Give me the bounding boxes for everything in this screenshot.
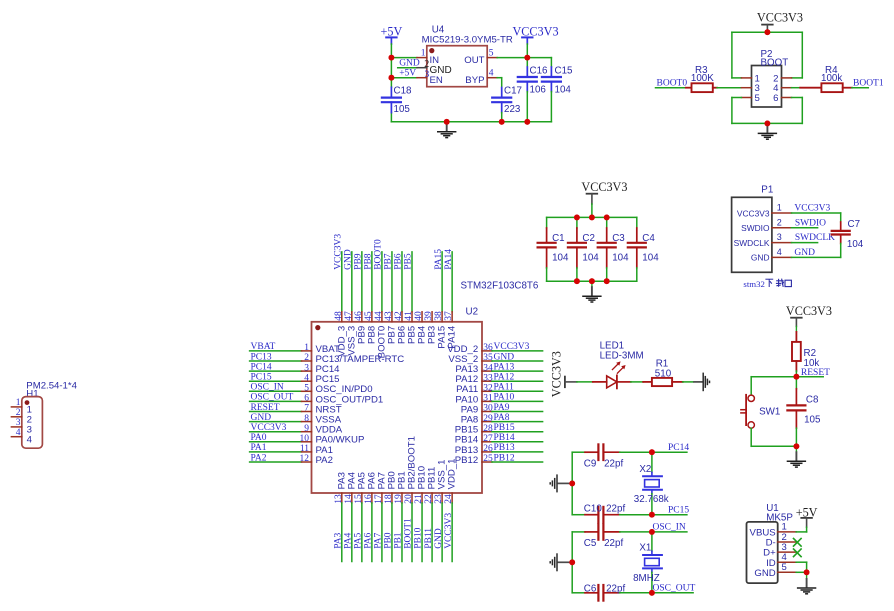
U2 pin 35 lead <box>482 360 543 362</box>
P1 pin 2 SWDIO <box>741 217 791 233</box>
U2 pin number 4 <box>304 373 309 383</box>
U2 pin number 17 <box>374 494 384 504</box>
svg-text:44: 44 <box>374 311 384 321</box>
U2 pin name PA9 <box>461 404 478 415</box>
U2 pin 7 lead <box>250 411 312 413</box>
svg-text:22pf: 22pf <box>604 459 623 470</box>
U4 pin 1 IN <box>417 49 439 66</box>
U2 pin name PA10 <box>455 394 478 405</box>
U2 pin name PC14 <box>316 364 341 375</box>
svg-text:PB9: PB9 <box>354 253 364 270</box>
U2 pin 11 lead <box>250 451 312 453</box>
net label PB11 (U2 pin 22) <box>424 528 434 549</box>
svg-text:BYP: BYP <box>465 75 484 86</box>
svg-text:OSC_IN: OSC_IN <box>251 383 284 393</box>
op U4 regulator body <box>427 46 487 87</box>
svg-text:33: 33 <box>483 373 493 383</box>
svg-text:104: 104 <box>847 239 864 250</box>
capacitor C6 <box>584 584 626 601</box>
net label PA5 (U2 pin 15) <box>354 533 364 549</box>
svg-text:PA7: PA7 <box>374 533 384 549</box>
svg-text:PB1: PB1 <box>394 532 404 549</box>
power symbol +5V (USB) <box>796 506 818 528</box>
junction X2/PC15 <box>649 512 655 518</box>
junction bottom rail/C3 <box>604 278 610 284</box>
wire RESET row <box>751 376 823 378</box>
svg-text:43: 43 <box>384 311 394 321</box>
U2 pin name PC13/TAMPER-RTC <box>316 354 405 365</box>
U2 pin 25 lead <box>482 461 543 463</box>
svg-text:41: 41 <box>404 311 414 321</box>
junction bracket/ground (32k) <box>569 481 575 487</box>
net label BOOT0 (U2 pin 44) <box>374 239 384 270</box>
U4 designator <box>432 24 445 35</box>
U2 pin name PB8 <box>366 326 377 344</box>
U2 pin 2 lead <box>250 360 312 362</box>
svg-text:27: 27 <box>483 434 493 444</box>
U2 pin name NRST <box>316 404 342 415</box>
P2 pin 4 <box>773 83 791 94</box>
P1 pin 1 VCC3V3 <box>737 203 792 219</box>
no-connect D- <box>794 539 802 547</box>
U2 pin number 23 <box>434 494 444 504</box>
H1 designator <box>26 380 77 399</box>
U2 pin name BOOT0 <box>377 326 388 359</box>
svg-text:VCC3V3: VCC3V3 <box>494 342 530 352</box>
junction +5V/pin1 <box>389 55 395 61</box>
U2 pin number 11 <box>300 444 309 454</box>
net label PB1 (U2 pin 19) <box>394 532 404 549</box>
net label PB13 (U2 pin 26) <box>494 443 515 453</box>
U1 pin 4 ID <box>766 552 796 569</box>
ground (LED, rotated) <box>693 373 709 392</box>
U2 pin 38 lead <box>441 252 443 322</box>
svg-text:4: 4 <box>489 69 494 79</box>
net label VBAT (U2 pin 1) <box>251 342 276 352</box>
P2 pin 3 <box>741 83 759 94</box>
svg-text:1: 1 <box>304 343 309 353</box>
U2 pin number 13 <box>334 494 344 504</box>
svg-text:36: 36 <box>483 343 493 353</box>
wire U4 pin1 to +5V rail <box>391 57 417 59</box>
capacitor C4 <box>628 217 659 281</box>
U2 pin name VBAT <box>316 344 340 355</box>
U2 pin name PA5 <box>356 472 367 489</box>
U2 pin number 28 <box>483 424 493 434</box>
svg-text:48: 48 <box>334 311 344 321</box>
junction top rail/C2 <box>574 215 580 221</box>
svg-text:OSC_OUT: OSC_OUT <box>653 583 696 593</box>
wire R1 to ground <box>683 381 694 383</box>
junction bottom bracket/ground <box>765 121 771 127</box>
svg-text:C9: C9 <box>584 459 597 470</box>
svg-text:X2: X2 <box>639 464 651 475</box>
U2 pin name PA3 <box>336 472 347 489</box>
net label PA7 (U2 pin 17) <box>374 533 384 549</box>
svg-text:C7: C7 <box>848 219 861 230</box>
net label PA2 (U2 pin 12) <box>251 453 267 463</box>
U2 pin name PB12 <box>455 455 478 466</box>
U2 pin number 46 <box>354 311 364 321</box>
U2 pin number 7 <box>304 404 309 414</box>
svg-text:PC13: PC13 <box>251 352 272 362</box>
U2 pin name PA4 <box>346 471 357 489</box>
P1 pin 4 GND <box>751 247 792 263</box>
svg-text:stm32: stm32 <box>743 279 765 289</box>
U2 pin number 43 <box>384 311 394 321</box>
U2 pin name PB3 <box>427 326 438 344</box>
U2 pin name PB13 <box>455 445 478 456</box>
U2 pin number 27 <box>483 434 493 444</box>
net label PA10 (U2 pin 31) <box>494 393 515 403</box>
U2 pin name PA14 <box>447 325 458 348</box>
U2 pin 12 lead <box>250 461 312 463</box>
U2 pin number 32 <box>483 384 493 394</box>
svg-text:PA15: PA15 <box>434 249 444 270</box>
svg-text:PC14: PC14 <box>251 362 272 372</box>
svg-text:22pf: 22pf <box>606 504 625 515</box>
connector P2 body <box>752 66 782 108</box>
U2 pin number 12 <box>300 454 310 464</box>
U2 pin 19 lead <box>401 493 403 562</box>
svg-text:4: 4 <box>777 247 782 257</box>
svg-text:PC14: PC14 <box>668 443 689 453</box>
ground (BOOT header) <box>758 123 777 139</box>
junction top rail/VCC stem <box>589 215 595 221</box>
ground (32k, rotated) <box>550 474 569 492</box>
U2 pin 33 lead <box>482 380 543 382</box>
svg-text:VCC3V3: VCC3V3 <box>581 180 627 194</box>
svg-text:VCC3V3: VCC3V3 <box>251 423 287 433</box>
svg-text:GND: GND <box>434 528 444 549</box>
svg-text:PA4: PA4 <box>344 533 354 549</box>
net label PA6 (U2 pin 16) <box>364 533 374 549</box>
svg-text:18: 18 <box>384 494 394 504</box>
svg-text:13: 13 <box>334 494 344 504</box>
svg-text:X1: X1 <box>639 543 651 554</box>
U1 pin 2 D- <box>766 532 797 549</box>
svg-text:104: 104 <box>555 84 572 95</box>
P2 designator <box>761 49 789 68</box>
U2 pin name VDD_3 <box>336 326 347 357</box>
net label PB15 (U2 pin 28) <box>494 423 515 433</box>
U2 pin 23 lead <box>441 493 443 562</box>
U2 pin number 6 <box>304 394 309 404</box>
H1 pin 1 <box>11 398 32 416</box>
net label RESET (U2 pin 7) <box>251 403 280 413</box>
power symbol VCC3V3 (reset) <box>786 304 832 332</box>
U1 pin 1 VBUS <box>750 522 797 539</box>
svg-text:22pf: 22pf <box>604 538 623 549</box>
U2 pin number 44 <box>374 311 384 321</box>
U2 pin name PA13 <box>455 364 478 375</box>
U2 pin 24 lead <box>451 493 453 562</box>
svg-text:19: 19 <box>394 494 404 504</box>
U2 pin number 25 <box>483 454 493 464</box>
wire left bracket (32k) <box>572 452 585 515</box>
svg-text:GND: GND <box>494 352 515 362</box>
connector U1 body <box>747 522 778 583</box>
svg-text:47: 47 <box>344 311 354 321</box>
svg-text:PA0: PA0 <box>251 433 267 443</box>
U2 pin name PB15 <box>455 425 478 436</box>
H1 pin 3 <box>11 418 32 436</box>
P2 pin 5 <box>741 93 759 104</box>
svg-text:8: 8 <box>304 414 309 424</box>
wire SW1 bottom row <box>751 445 796 447</box>
svg-text:PB12: PB12 <box>494 453 515 463</box>
net label PC13 (U2 pin 2) <box>251 352 272 362</box>
junction rail/C16 <box>524 119 530 125</box>
LED1 designator <box>600 341 644 362</box>
U2 pin name VDD_2 <box>447 344 478 355</box>
net label PA15 (U2 pin 38) <box>434 249 444 270</box>
U2 designator <box>466 307 479 318</box>
wire +5V vertical rail <box>390 44 392 122</box>
net label PA8 (U2 pin 29) <box>494 413 510 423</box>
svg-text:2: 2 <box>777 217 782 227</box>
svg-text:PB14: PB14 <box>494 433 515 443</box>
svg-text:C8: C8 <box>806 395 819 406</box>
junction bracket/ground (8M) <box>569 559 575 565</box>
svg-text:PA14: PA14 <box>444 249 454 270</box>
net label BOOT1 (U2 pin 20) <box>404 518 414 549</box>
net label OSC_OUT <box>653 583 696 593</box>
svg-text:MIC5219-3.0YM5-TR: MIC5219-3.0YM5-TR <box>422 35 513 46</box>
U2 pin name PB2/BOOT1 <box>407 436 418 489</box>
U2 pin 17 lead <box>381 493 383 562</box>
net label PB10 (U2 pin 21) <box>414 527 424 548</box>
U2 pin name OSC_OUT/PD1 <box>316 394 384 405</box>
svg-text:PB8: PB8 <box>364 253 374 270</box>
U2 pin 48 lead <box>341 252 343 322</box>
power symbol VCC3V3 (decoupling bank) <box>581 180 627 204</box>
U2 pin name PA2 <box>316 455 333 466</box>
U2 pin number 31 <box>483 394 493 404</box>
connector H1 body <box>22 397 43 449</box>
U2 pin name VDDA <box>316 425 343 436</box>
svg-text:32: 32 <box>483 384 493 394</box>
svg-text:BOOT0: BOOT0 <box>657 78 688 88</box>
svg-text:C16: C16 <box>530 65 549 76</box>
svg-text:PA10: PA10 <box>494 393 515 403</box>
U2 pin number 41 <box>404 311 414 321</box>
U2 pin number 9 <box>304 424 309 434</box>
wire decoupling top rail <box>547 216 637 218</box>
svg-text:VBAT: VBAT <box>251 342 276 352</box>
svg-text:SWDCLK: SWDCLK <box>734 238 770 248</box>
wire ground rail (regulator) <box>391 121 551 123</box>
svg-text:VDD_1: VDD_1 <box>447 458 458 489</box>
net label PA0 (U2 pin 10) <box>251 433 267 443</box>
U2 pin name PB1 <box>397 471 408 489</box>
svg-text:SWDIO: SWDIO <box>795 218 826 228</box>
svg-text:2: 2 <box>304 353 309 363</box>
svg-text:PB5: PB5 <box>404 253 414 270</box>
svg-text:PC15: PC15 <box>668 505 689 515</box>
svg-text:40: 40 <box>414 311 424 321</box>
U2 pin name PA1 <box>316 445 333 456</box>
power symbol VCC3V3 (BOOT header) <box>757 11 803 33</box>
svg-text:GND: GND <box>751 253 770 263</box>
svg-text:GND: GND <box>754 568 775 579</box>
net label PC15 (U2 pin 4) <box>251 373 272 383</box>
svg-text:GND: GND <box>399 58 420 68</box>
P1 designator <box>761 184 773 195</box>
U4 value MIC5219-3.0YM5-TR <box>422 35 513 46</box>
U2 value STM32F103C8T6 <box>461 281 539 292</box>
U2 pin name PB9 <box>356 326 367 344</box>
wire PC14 row <box>620 451 687 453</box>
svg-text:PB15: PB15 <box>494 423 515 433</box>
svg-text:21: 21 <box>414 494 424 504</box>
U2 pin number 2 <box>304 353 309 363</box>
U2 pin name VSS_2 <box>448 354 478 365</box>
junction OUT/C16 <box>524 55 530 61</box>
net label VCC3V3 (U2 pin 48) <box>334 234 344 270</box>
U2 pin number 14 <box>344 494 354 504</box>
net label PA4 (U2 pin 14) <box>344 533 354 549</box>
U2 pin 20 lead <box>411 493 413 562</box>
svg-text:U2: U2 <box>466 307 479 318</box>
svg-text:SWDIO: SWDIO <box>741 223 770 233</box>
net label PA14 (U2 pin 37) <box>444 249 454 270</box>
U2 pin 43 lead <box>391 252 393 322</box>
svg-text:GND: GND <box>344 249 354 270</box>
svg-text:5: 5 <box>782 562 787 573</box>
U2 pin 1 lead <box>250 350 312 352</box>
wire VCC3V3 to LED <box>577 381 593 383</box>
svg-text:7: 7 <box>304 404 309 414</box>
P2 pin 6 <box>773 93 791 104</box>
junction VCC3V3/top bracket <box>765 29 771 35</box>
net label SWDCLK <box>792 233 836 243</box>
svg-text:45: 45 <box>364 311 374 321</box>
svg-text:PB0: PB0 <box>384 532 394 549</box>
capacitor C16 <box>518 58 548 122</box>
svg-text:SW1: SW1 <box>759 407 780 418</box>
net label OSC_IN (U2 pin 5) <box>251 383 284 393</box>
svg-text:EN: EN <box>430 75 443 86</box>
svg-text:C10: C10 <box>584 504 603 515</box>
junction X1/OSC_IN <box>649 529 655 535</box>
capacitor C17 <box>492 86 522 122</box>
svg-text:6: 6 <box>304 394 309 404</box>
svg-text:37: 37 <box>444 311 454 321</box>
U2 pin 28 lead <box>482 431 543 433</box>
U2 pin 21 lead <box>421 493 423 562</box>
U2 pin 26 lead <box>482 451 543 453</box>
U2 pin number 47 <box>344 311 354 321</box>
svg-text:C1: C1 <box>552 233 565 244</box>
svg-text:28: 28 <box>483 424 493 434</box>
svg-text:46: 46 <box>354 311 364 321</box>
svg-text:SWDCLK: SWDCLK <box>795 233 835 243</box>
svg-text:GND: GND <box>251 413 272 423</box>
net label PA3 (U2 pin 13) <box>334 533 344 549</box>
svg-text:PA3: PA3 <box>334 533 344 549</box>
svg-text:STM32F103C8T6: STM32F103C8T6 <box>461 281 539 292</box>
U2 pin 13 lead <box>341 493 343 562</box>
svg-text:42: 42 <box>394 311 404 321</box>
U2 pin number 16 <box>364 494 374 504</box>
junction X2/PC14 <box>649 449 655 455</box>
svg-text:PB10: PB10 <box>414 527 424 548</box>
svg-text:C4: C4 <box>642 233 655 244</box>
capacitor C8 <box>787 389 821 447</box>
svg-text:510: 510 <box>655 368 672 379</box>
svg-text:1: 1 <box>421 49 426 59</box>
U2 pin number 20 <box>404 494 414 504</box>
H1 pin 2 <box>11 408 32 426</box>
svg-text:26: 26 <box>483 444 493 454</box>
U1 pin 5 GND <box>754 562 796 579</box>
P2 pin 2 <box>773 73 791 84</box>
svg-text:PC15: PC15 <box>251 373 272 383</box>
svg-text:VCC3V3: VCC3V3 <box>786 304 832 318</box>
wire RESET node down to C8 <box>795 377 797 389</box>
ground (reset) <box>787 449 806 468</box>
U2 pin 3 lead <box>250 370 312 372</box>
junction X1/OSC_OUT <box>649 590 655 596</box>
U2 pin number 3 <box>304 363 309 373</box>
wire R3 to P2 pin3 <box>717 87 741 89</box>
U2 pin number 38 <box>434 311 444 321</box>
U2 pin number 33 <box>483 373 493 383</box>
net label OSC_OUT (U2 pin 6) <box>251 393 294 403</box>
U2 pin 8 lead <box>250 421 312 423</box>
svg-text:105: 105 <box>804 415 821 426</box>
U2 pin number 29 <box>483 414 493 424</box>
U2 pin 14 lead <box>351 493 353 562</box>
net label OSC_IN <box>653 523 686 533</box>
U2 pin name PA6 <box>366 472 377 489</box>
wire P2 pin4 to R4 <box>792 87 801 89</box>
P2 pin 1 <box>741 73 759 84</box>
net label PA1 (U2 pin 11) <box>251 443 267 453</box>
svg-text:12: 12 <box>300 454 310 464</box>
U2 pin 5 lead <box>250 390 312 392</box>
U2 pin 40 lead <box>421 312 423 322</box>
svg-text:RESET: RESET <box>251 403 280 413</box>
ground (USB) <box>797 575 816 594</box>
svg-text:BOOT1: BOOT1 <box>853 78 884 88</box>
svg-text:PB11: PB11 <box>424 528 434 549</box>
ground (8M, rotated) <box>550 553 569 571</box>
U2 pin number 30 <box>483 404 493 414</box>
wire BOOT header bottom bracket <box>732 98 802 124</box>
U2 pin number 36 <box>483 343 493 353</box>
svg-text:C3: C3 <box>612 233 625 244</box>
U2 pin name PA8 <box>461 415 478 426</box>
U4 pin 2 GND <box>417 59 452 76</box>
svg-text:PA1: PA1 <box>251 443 267 453</box>
wire OUT net <box>497 57 551 59</box>
net label PB12 (U2 pin 25) <box>494 453 515 463</box>
svg-text:100k: 100k <box>821 73 842 84</box>
U1 designator <box>766 503 793 523</box>
U2 pin 9 lead <box>250 431 312 433</box>
net label PB6 (U2 pin 42) <box>394 253 404 270</box>
net label PA11 (U2 pin 32) <box>494 383 515 393</box>
svg-text:VCC3V3: VCC3V3 <box>444 513 454 549</box>
U2 pin number 40 <box>414 311 424 321</box>
svg-text:29: 29 <box>483 414 493 424</box>
P1 caption stm32 download port <box>743 279 791 289</box>
U2 pin number 48 <box>334 311 344 321</box>
U2 pin 39 lead <box>431 312 433 322</box>
U2 pin name PA12 <box>455 374 478 385</box>
